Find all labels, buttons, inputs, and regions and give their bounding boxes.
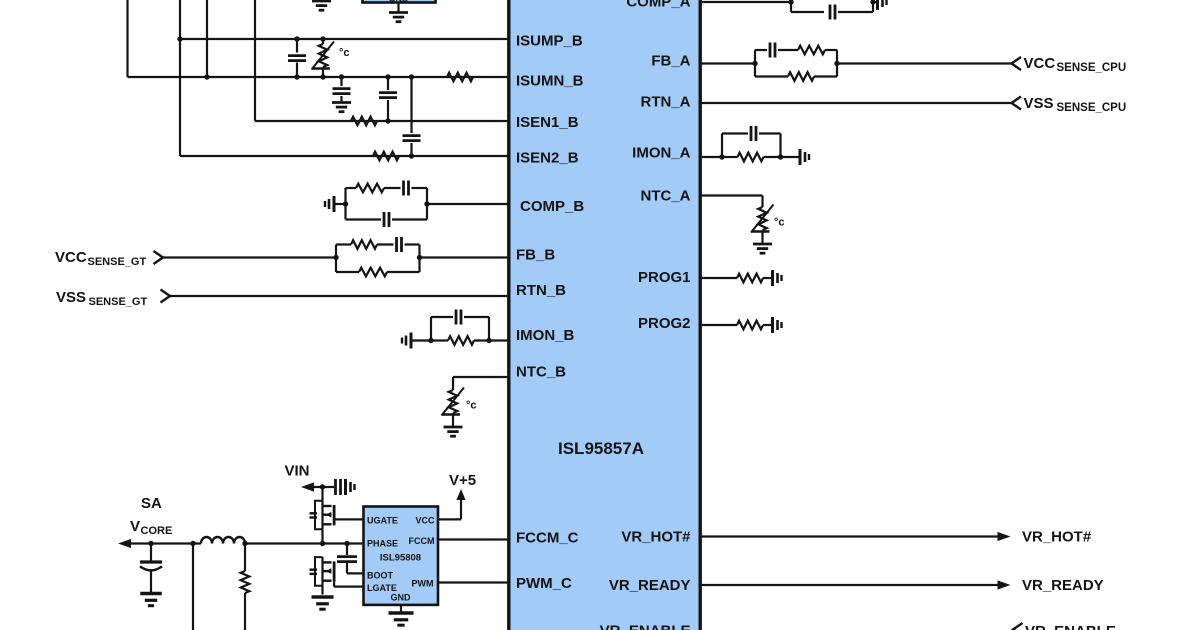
svg-text:FB_A: FB_A bbox=[651, 53, 690, 70]
svg-text:VIN: VIN bbox=[285, 463, 310, 480]
svg-text:SENSE_GT: SENSE_GT bbox=[89, 296, 148, 308]
svg-text:RTN_A: RTN_A bbox=[640, 94, 690, 111]
svg-text:BOOT: BOOT bbox=[367, 571, 394, 581]
svg-text:UGATE: UGATE bbox=[367, 516, 398, 526]
svg-text:ISL95857A: ISL95857A bbox=[558, 439, 644, 458]
svg-text:FCCM: FCCM bbox=[409, 536, 435, 546]
svg-text:VSS: VSS bbox=[1024, 95, 1054, 112]
svg-text:ISUMP_B: ISUMP_B bbox=[516, 33, 583, 50]
svg-text:°c: °c bbox=[466, 400, 477, 412]
svg-text:IMON_B: IMON_B bbox=[516, 327, 575, 344]
svg-text:VCC: VCC bbox=[415, 516, 435, 526]
svg-text:VR_ENABLE: VR_ENABLE bbox=[600, 623, 691, 630]
svg-text:GND: GND bbox=[391, 593, 412, 603]
svg-text:SENSE_CPU: SENSE_CPU bbox=[1057, 102, 1127, 114]
svg-text:ISUMN_B: ISUMN_B bbox=[516, 73, 584, 90]
svg-text:FCCM_C: FCCM_C bbox=[516, 530, 579, 547]
svg-text:NTC_A: NTC_A bbox=[640, 188, 690, 205]
svg-text:VCC: VCC bbox=[1024, 55, 1056, 72]
svg-text:PHASE: PHASE bbox=[367, 539, 398, 549]
svg-text:PWM_C: PWM_C bbox=[516, 575, 572, 592]
svg-text:FB_B: FB_B bbox=[516, 247, 555, 264]
svg-text:PWM: PWM bbox=[412, 579, 434, 589]
svg-text:PROG1: PROG1 bbox=[638, 269, 691, 286]
svg-text:VR_HOT#: VR_HOT# bbox=[621, 529, 691, 546]
svg-text:VCC: VCC bbox=[55, 249, 87, 266]
svg-text:CORE: CORE bbox=[141, 525, 173, 537]
svg-text:ISEN2_B: ISEN2_B bbox=[516, 150, 579, 167]
svg-text:COMP_B: COMP_B bbox=[520, 198, 584, 215]
svg-text:IMON_A: IMON_A bbox=[632, 145, 691, 162]
svg-text:°c: °c bbox=[774, 217, 785, 229]
svg-text:NTC_B: NTC_B bbox=[516, 364, 566, 381]
svg-text:LGATE: LGATE bbox=[367, 583, 397, 593]
svg-text:PROG2: PROG2 bbox=[638, 315, 691, 332]
svg-text:VR_HOT#: VR_HOT# bbox=[1022, 529, 1092, 546]
svg-text:ISL95808: ISL95808 bbox=[380, 553, 421, 564]
svg-text:VR_ENABLE: VR_ENABLE bbox=[1025, 623, 1116, 630]
svg-text:RTN_B: RTN_B bbox=[516, 282, 566, 299]
svg-text:VSS: VSS bbox=[56, 289, 86, 306]
svg-text:COMP_A: COMP_A bbox=[626, 0, 690, 11]
svg-text:VR_READY: VR_READY bbox=[609, 577, 691, 594]
svg-text:SENSE_CPU: SENSE_CPU bbox=[1057, 62, 1127, 74]
svg-text:VR_READY: VR_READY bbox=[1022, 577, 1104, 594]
svg-text:SENSE_GT: SENSE_GT bbox=[88, 256, 147, 268]
svg-text:ISEN1_B: ISEN1_B bbox=[516, 114, 579, 131]
svg-text:V: V bbox=[130, 518, 140, 535]
svg-text:°c: °c bbox=[339, 47, 350, 59]
svg-text:V+5: V+5 bbox=[449, 472, 476, 489]
svg-text:SA: SA bbox=[141, 495, 162, 512]
